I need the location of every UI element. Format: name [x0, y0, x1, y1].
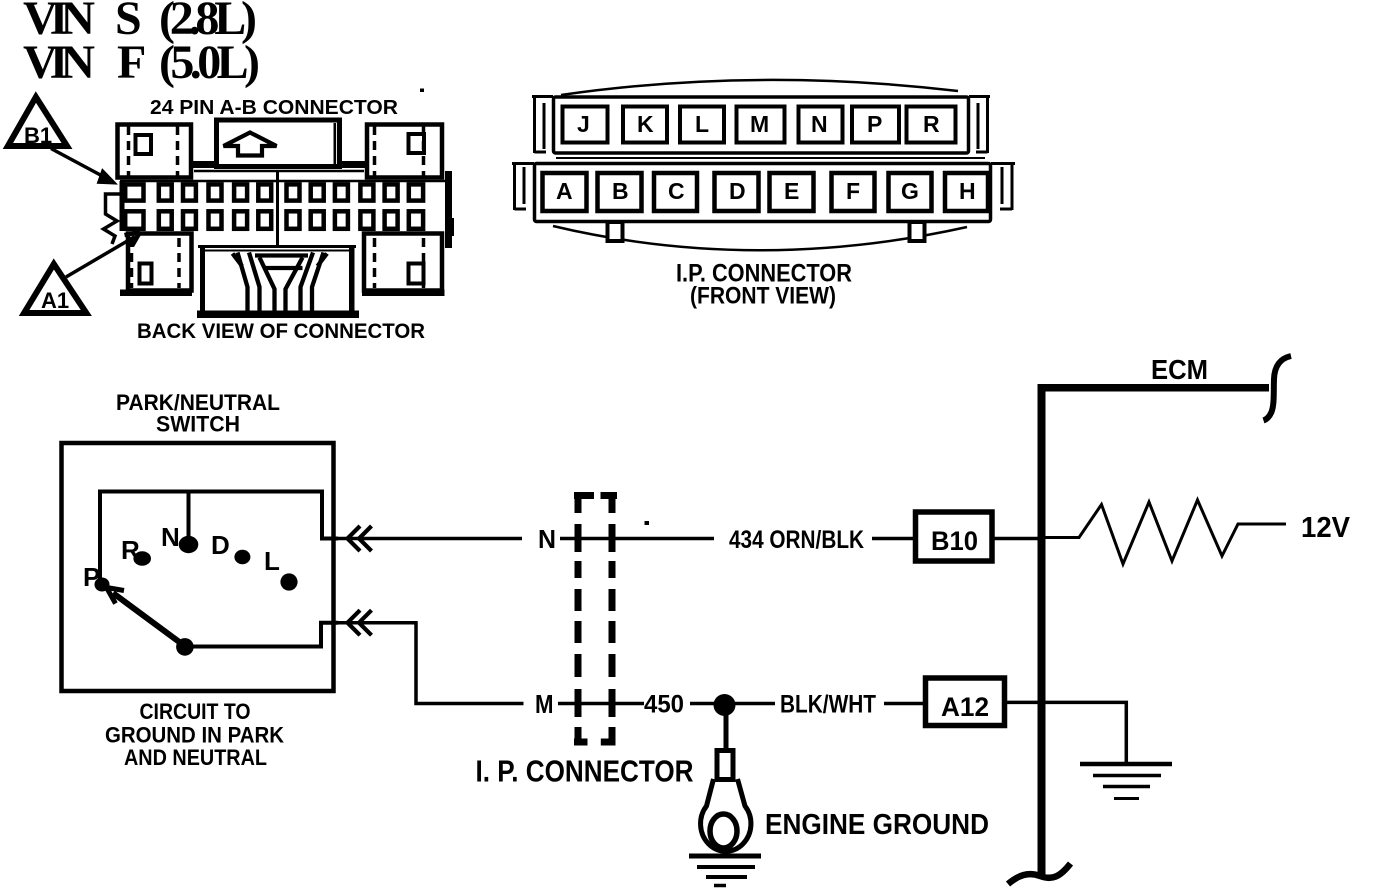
svg-text:B10: B10: [931, 526, 978, 556]
I.P. connector front view: pin cavity M: [737, 107, 785, 143]
park/neutral switch: wiper common wire: [184, 623, 338, 647]
svg-text:434 ORN/BLK: 434 ORN/BLK: [729, 526, 864, 554]
wire: splice to BLK/WHT label: [735, 702, 775, 706]
svg-text:ECM: ECM: [1151, 354, 1208, 385]
ECM boundary: left edge: [1038, 384, 1046, 877]
contact P: [83, 562, 110, 592]
wire: switch N terminal to I.P. connector: [330, 537, 522, 541]
wire: 434 label to B10: [872, 537, 913, 541]
ECM boundary: break squiggle top right: [1264, 356, 1292, 421]
speck artifacts: [420, 89, 649, 526]
svg-text:A: A: [556, 178, 573, 204]
connector back view: top-center keyway box: [217, 120, 340, 167]
svg-text:P: P: [83, 562, 100, 592]
leader arrow from B1 to pin B1: [51, 149, 116, 184]
ECM boundary: break squiggle bottom: [1008, 864, 1071, 885]
svg-text:BACK VIEW OF CONNECTOR: BACK VIEW OF CONNECTOR: [137, 320, 425, 343]
svg-text:ENGINE GROUND: ENGINE GROUND: [765, 809, 989, 841]
contact N: [161, 522, 198, 553]
connector back view: pin row A (lower, 12 cavities): [125, 211, 423, 229]
connector back view: right edge latch: [445, 171, 454, 248]
wiper pivot contact: [176, 638, 194, 656]
callout triangle B1: [8, 97, 67, 148]
connector back view: top-left cavity block: [118, 125, 192, 178]
ECM terminal B10: [916, 512, 993, 561]
I.P. connector front view: pin cavity G: [889, 173, 932, 211]
engine ground: ground stack: [689, 856, 761, 886]
connector back view: bottom-center wire funnel block: [197, 246, 359, 318]
wire: M through connector to 450 label: [558, 702, 644, 706]
svg-text:N: N: [161, 522, 180, 552]
svg-text:450: 450: [644, 691, 684, 719]
connector back view: pin row B (upper, 12 cavities): [125, 184, 423, 200]
I.P. connector front view: pin cavity C: [654, 173, 697, 211]
svg-text:F: F: [846, 178, 860, 204]
I.P. connector front view: top arc: [561, 80, 958, 95]
engine ground: ring terminal: [701, 751, 751, 852]
ECM internal ground symbol: [1080, 764, 1172, 799]
wire: B10 to ECM boundary: [995, 537, 1041, 541]
wire: N through connector to 434 label: [560, 537, 714, 541]
I.P. connector front view: pin cavity J: [563, 107, 608, 143]
svg-text:D: D: [729, 178, 746, 204]
wire: 450 label to splice: [690, 702, 714, 706]
svg-text:P: P: [867, 111, 882, 137]
svg-text:B: B: [612, 178, 629, 204]
wiper arm (arrow toward P): [107, 588, 183, 645]
svg-text:B1: B1: [24, 123, 52, 148]
svg-text:H: H: [959, 178, 976, 204]
connector back view: bottom-right cavity block: [362, 234, 445, 297]
svg-text:BLK/WHT: BLK/WHT: [780, 691, 876, 719]
svg-text:M: M: [750, 111, 769, 137]
svg-text:N: N: [811, 111, 828, 137]
wire: switch M terminal, jog down: [330, 623, 524, 704]
svg-text:A1: A1: [41, 288, 69, 313]
svg-text:24 PIN A-B CONNECTOR: 24 PIN A-B CONNECTOR: [150, 97, 399, 119]
svg-text:12V: 12V: [1301, 512, 1351, 544]
svg-text:I. P. CONNECTOR: I. P. CONNECTOR: [476, 754, 694, 789]
I.P. connector front view: pin cavity B: [598, 173, 642, 211]
connector back view: joining bars: [193, 161, 218, 168]
connector back view: left edge latch: [104, 194, 122, 244]
connector back view: orientation arrow: [224, 133, 277, 156]
connector chevrons on N wire: [348, 526, 372, 551]
I.P. connector front view: pin cavity K: [623, 107, 667, 143]
svg-text:VINF(5.0L): VINF(5.0L): [23, 36, 260, 89]
I.P. connector front view: upper shell (row J-R): [532, 97, 990, 159]
I.P. connector front view: mounting tab right: [910, 222, 925, 241]
I.P. connector front view: lower shell (row A-H): [512, 164, 1015, 222]
I.P. connector front view: pin cavity A: [543, 173, 587, 211]
svg-text:D: D: [211, 530, 230, 560]
contact L: [264, 546, 298, 591]
leader arrow from A1 to pin A1: [66, 232, 140, 277]
connector back view: bottom-left cavity block: [120, 234, 192, 297]
wire: BLK/WHT label to A12: [884, 702, 923, 706]
svg-text:A12: A12: [941, 692, 989, 722]
I.P. connector front view: bottom arc: [553, 226, 967, 250]
label CIRCUIT TO GROUND IN PARK AND NEUTRAL: [105, 699, 284, 770]
splice junction S450: [714, 694, 736, 716]
ECM terminal A12: [926, 678, 1005, 726]
contact R: [121, 535, 151, 566]
svg-text:L: L: [264, 546, 280, 576]
svg-text:M: M: [535, 689, 554, 719]
svg-text:AND NEUTRAL: AND NEUTRAL: [124, 745, 267, 770]
connector back view: top-right cavity block: [367, 125, 442, 178]
svg-text:SWITCH: SWITCH: [156, 412, 240, 437]
I.P. connector (schematic, dashed pass-through): [574, 496, 617, 746]
I.P. connector front view: pin cavity D: [715, 173, 759, 211]
connector chevrons on M wire: [348, 610, 372, 635]
resistor R (ECM pull-up): [1046, 500, 1287, 564]
ECM boundary: top edge: [1038, 384, 1270, 392]
svg-text:G: G: [901, 178, 919, 204]
I.P. connector front view: pin cavity N: [799, 107, 843, 143]
label PARK/NEUTRAL SWITCH: [116, 390, 280, 437]
svg-text:C: C: [668, 178, 685, 204]
engine ground: lead from splice: [724, 715, 729, 749]
I.P. connector front view: pin cavity H: [945, 173, 988, 211]
contact D: [211, 530, 250, 564]
svg-text:(FRONT VIEW): (FRONT VIEW): [690, 283, 836, 310]
svg-text:E: E: [784, 178, 799, 204]
svg-text:R: R: [923, 111, 940, 137]
callout triangle A1: [24, 264, 86, 313]
I.P. connector front view: pin cavity R: [907, 107, 956, 143]
svg-text:L: L: [695, 111, 709, 137]
svg-text:CIRCUIT TO: CIRCUIT TO: [140, 699, 251, 724]
svg-text:R: R: [121, 535, 140, 565]
park/neutral switch: internal wire to N contact row: [100, 492, 338, 585]
park/neutral switch: N contact stem: [187, 492, 191, 545]
connector back view: pin band frame: [120, 171, 448, 246]
I.P. connector front view: pin cavity L: [680, 107, 724, 143]
svg-text:N: N: [538, 524, 556, 554]
I.P. connector front view: pin cavity P: [852, 107, 899, 143]
svg-text:GROUND IN PARK: GROUND IN PARK: [105, 723, 284, 748]
I.P. connector front view: pin cavity F: [832, 173, 875, 211]
park/neutral switch S1: enclosure box: [62, 443, 334, 691]
svg-text:K: K: [637, 111, 654, 137]
I.P. connector front view: mounting tab left: [608, 222, 623, 241]
wire: A12 to internal ground: [1005, 702, 1126, 763]
svg-text:J: J: [577, 111, 590, 137]
I.P. connector front view: pin cavity E: [770, 173, 814, 211]
